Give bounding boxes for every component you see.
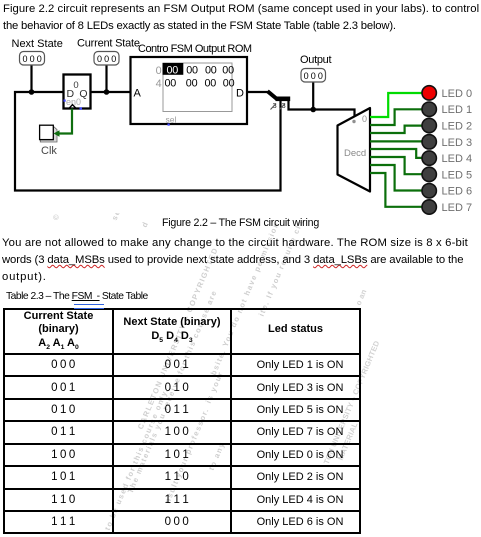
svg-text:00: 00 bbox=[205, 65, 217, 77]
svg-text:LED 4: LED 4 bbox=[442, 153, 473, 165]
svg-text:Decd: Decd bbox=[344, 148, 366, 159]
svg-text:00: 00 bbox=[186, 65, 198, 77]
svg-text:LED 7: LED 7 bbox=[442, 202, 473, 214]
svg-text:Output: Output bbox=[300, 54, 331, 66]
svg-text:0: 0 bbox=[73, 80, 78, 91]
svg-text:LED 2: LED 2 bbox=[442, 121, 473, 133]
svg-text:00: 00 bbox=[167, 65, 179, 77]
svg-text:Clk: Clk bbox=[41, 145, 57, 157]
svg-text:LED 3: LED 3 bbox=[442, 137, 473, 149]
svg-text:00: 00 bbox=[165, 78, 177, 90]
svg-text:4: 4 bbox=[156, 78, 162, 90]
svg-text:00: 00 bbox=[223, 78, 235, 90]
svg-text:0 0 0: 0 0 0 bbox=[97, 54, 116, 64]
svg-text:Current State: Current State bbox=[77, 38, 140, 50]
svg-text:LED 5: LED 5 bbox=[442, 169, 473, 181]
svg-text:0 0 0: 0 0 0 bbox=[304, 71, 323, 81]
svg-text:A: A bbox=[134, 88, 142, 100]
svg-text:LED 1: LED 1 bbox=[442, 104, 473, 116]
svg-text:sel: sel bbox=[166, 115, 177, 125]
svg-text:00: 00 bbox=[222, 65, 234, 77]
svg-text:00: 00 bbox=[186, 78, 198, 90]
svg-text:LED 6: LED 6 bbox=[442, 186, 473, 198]
svg-text:00: 00 bbox=[205, 78, 217, 90]
svg-text:Contro FSM Output ROM: Contro FSM Output ROM bbox=[138, 43, 252, 55]
svg-text:0: 0 bbox=[156, 65, 162, 77]
svg-text:Next State: Next State bbox=[12, 38, 63, 50]
svg-text:0 0 0: 0 0 0 bbox=[22, 54, 41, 64]
svg-text:D: D bbox=[236, 88, 244, 100]
svg-text:0: 0 bbox=[362, 114, 367, 124]
svg-text:LED 0: LED 0 bbox=[442, 88, 473, 100]
